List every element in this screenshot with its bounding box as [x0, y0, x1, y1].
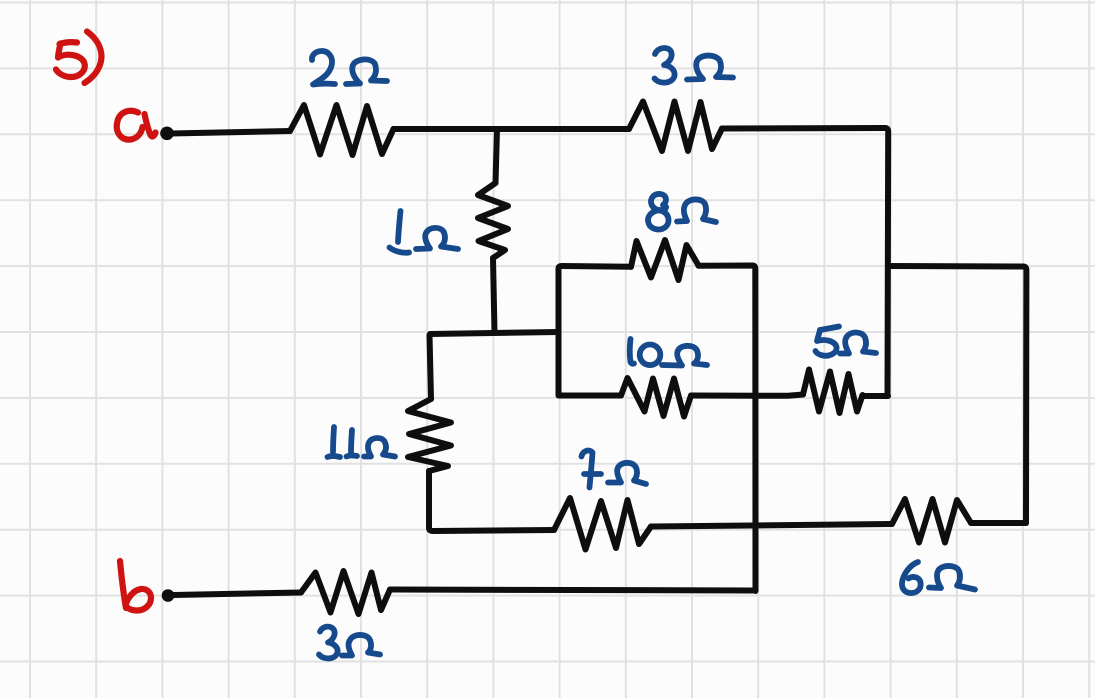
- wire: 6ohm to bottom-right corner: [971, 520, 1026, 526]
- wire: 8ohm to box right corner, vertical down to b-wire: [699, 266, 756, 592]
- resistor R 10ohm: [621, 378, 691, 417]
- wire: 10ohm row left lead: [559, 393, 622, 399]
- resistor R 3ohm (bottom): [301, 571, 390, 614]
- value label 2ohm: [312, 51, 335, 84]
- value label 3ohm (bottom): [319, 627, 338, 659]
- wire: 5ohm right lead to vertical: [863, 393, 889, 399]
- node a terminal dot: [160, 127, 174, 141]
- wire: 11ohm top lead: [430, 335, 432, 399]
- wire: 1ohm bottom lead: [493, 258, 495, 333]
- wire: 3ohm bottom to vertical at x=755: [390, 590, 753, 591]
- wire: resistor 3ohm to top-right corner, down to 5ohm node: [722, 128, 888, 394]
- wire: 1ohm top lead: [496, 129, 498, 183]
- value label 1ohm: [398, 211, 401, 242]
- wire: right branch at y=266 to far right corner, down to 6ohm: [888, 266, 1026, 523]
- resistor R 2ohm: [290, 105, 394, 155]
- resistor R 1ohm (vertical): [478, 183, 508, 258]
- wire: 7ohm to 6ohm (crosses vertical at x=755): [651, 524, 892, 527]
- wire: 11ohm bottom lead and corner: [429, 471, 554, 531]
- resistor R 3ohm (top): [629, 102, 722, 152]
- value label 5ohm: [820, 327, 839, 331]
- problem number label "5)": [60, 42, 78, 44]
- value label 8ohm: [648, 194, 669, 229]
- node b label: [120, 561, 126, 608]
- wire: node b to resistor 3ohm bottom: [174, 593, 302, 596]
- resistor R 7ohm: [554, 498, 651, 550]
- node b terminal dot: [162, 589, 175, 602]
- value label 7ohm: [582, 451, 593, 488]
- wire: mid horizontal from 11ohm top to box left side: [430, 332, 558, 334]
- wire: node a to resistor 2ohm: [171, 131, 290, 134]
- resistor R 8ohm: [631, 240, 699, 280]
- value label 3ohm (top): [655, 48, 675, 83]
- resistor R 6ohm: [892, 499, 971, 543]
- node a label: [117, 111, 143, 140]
- value label 6ohm: [902, 562, 921, 593]
- resistor R 11ohm (vertical): [408, 399, 451, 471]
- value label 11ohm: [333, 427, 334, 452]
- wire: resistor 2ohm to resistor 3ohm (junction with 1ohm at x=497): [394, 126, 630, 132]
- resistor R 5ohm: [803, 370, 863, 414]
- wire: box left vertical (8ohm to 10ohm): [559, 266, 632, 394]
- value label 10ohm: [630, 339, 634, 364]
- wire: 10ohm to 5ohm (crosses vertical at x=755): [691, 395, 803, 396]
